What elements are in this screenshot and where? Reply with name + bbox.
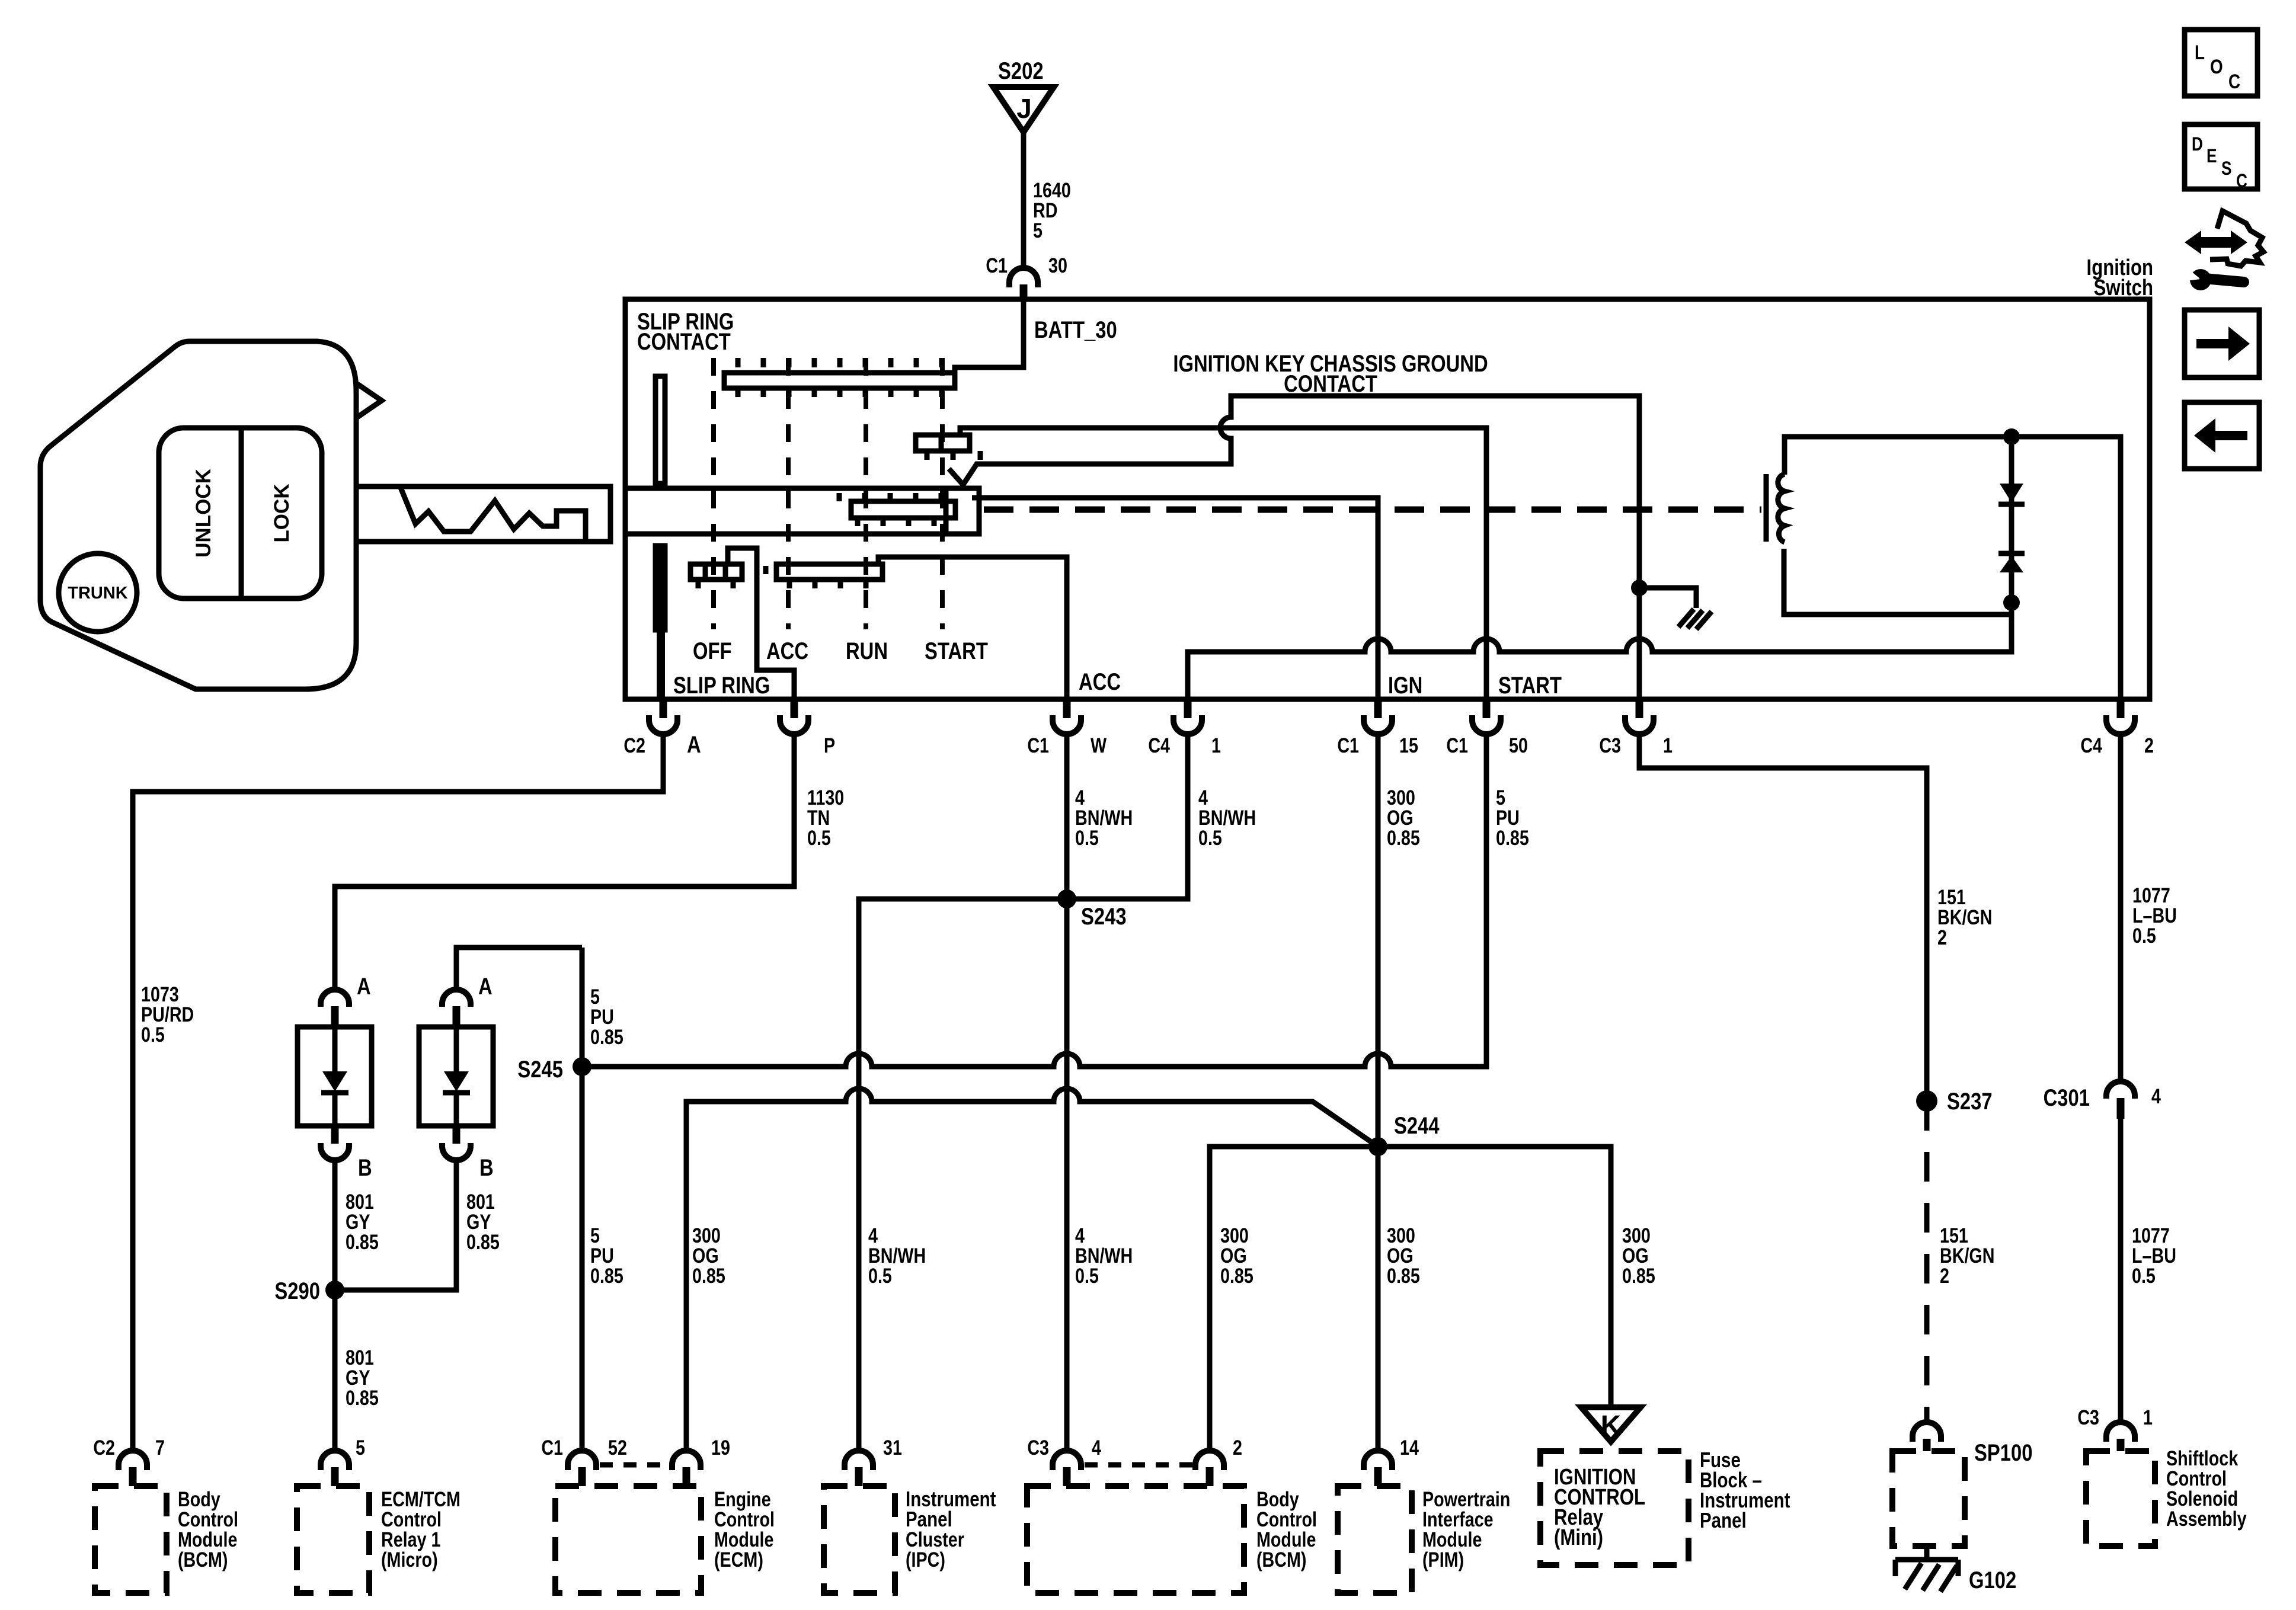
svg-text:C2: C2 xyxy=(93,1436,115,1459)
body control module BCM box 2 xyxy=(1027,1486,1317,1593)
internal ground splice on C3 1 wire xyxy=(1631,580,1712,629)
diode module 1 terminal A xyxy=(321,973,371,1027)
svg-text:0.85: 0.85 xyxy=(346,1386,379,1409)
dashed wire 151 BK/GN S237 to SP100 xyxy=(1927,1101,1994,1422)
svg-text:C: C xyxy=(2236,171,2247,192)
svg-text:S243: S243 xyxy=(1081,903,1127,930)
svg-text:0.5: 0.5 xyxy=(1075,826,1099,849)
svg-text:OFF: OFF xyxy=(693,638,732,664)
svg-text:Assembly: Assembly xyxy=(2166,1507,2247,1530)
svg-text:1: 1 xyxy=(1663,734,1673,757)
svg-text:C4: C4 xyxy=(1148,734,1170,757)
svg-text:0.85: 0.85 xyxy=(1496,826,1529,849)
icon repair double arrow with outline xyxy=(2185,211,2263,266)
label SLIP RING CONTACT xyxy=(637,308,734,355)
splice pack SP100 box xyxy=(1892,1439,2032,1546)
label fuse block instrument panel xyxy=(1700,1448,1790,1532)
svg-text:C: C xyxy=(2228,70,2240,92)
svg-text:S202: S202 xyxy=(998,57,1044,84)
svg-text:14: 14 xyxy=(1400,1436,1419,1459)
svg-text:C1: C1 xyxy=(1337,734,1359,757)
wire 300 OG S244 to BCM pin 2 xyxy=(1210,1147,1378,1451)
svg-text:D: D xyxy=(2192,135,2203,155)
wire 801 GY diode 1 B to S290 xyxy=(335,1160,379,1451)
key blade inside switch xyxy=(625,488,979,534)
wire 801 GY diode 2 B to S290 xyxy=(335,1160,500,1290)
svg-text:50: 50 xyxy=(1509,734,1528,757)
wire 5 PU S245 net xyxy=(582,734,1529,1451)
svg-text:S290: S290 xyxy=(274,1278,320,1304)
svg-text:C1: C1 xyxy=(1446,734,1468,757)
wire BATT_30 from C1 30 to battery contact bar xyxy=(955,300,1024,373)
label IGNITION KEY CHASSIS GROUND CONTACT xyxy=(1173,350,1488,397)
svg-text:S245: S245 xyxy=(517,1056,563,1083)
splice S237 xyxy=(1916,1088,1993,1115)
wire slip ring A output xyxy=(657,547,665,699)
terminal C3 1 at shiftlock xyxy=(2077,1406,2153,1451)
wire 300 OG S244 to ECM 19 xyxy=(686,1089,1378,1451)
svg-text:0.5: 0.5 xyxy=(807,826,831,849)
wire 4 BN/WH S243 to IPC 31 xyxy=(859,899,1067,1451)
body control module BCM box 1 xyxy=(95,1486,238,1593)
svg-text:4: 4 xyxy=(1092,1436,1101,1459)
terminal C3 4 at BCM xyxy=(1027,1436,1101,1486)
dashed position line OFF xyxy=(711,358,716,629)
engine control module ECM box xyxy=(555,1486,775,1593)
terminal C2 7 at BCM xyxy=(93,1436,165,1486)
key blade outside switch xyxy=(357,486,610,542)
svg-text:SLIP RING: SLIP RING xyxy=(673,672,770,699)
terminal C1 52 at ECM xyxy=(541,1436,627,1486)
svg-text:L: L xyxy=(2195,41,2205,63)
terminal 14 at PIM xyxy=(1364,1436,1419,1486)
solenoid coil core xyxy=(1764,474,1769,542)
svg-text:0.5: 0.5 xyxy=(868,1264,892,1287)
svg-text:CONTACT: CONTACT xyxy=(637,328,731,355)
icon DESC box xyxy=(2185,124,2257,192)
svg-text:0.85: 0.85 xyxy=(1387,826,1420,849)
svg-text:0.5: 0.5 xyxy=(1198,826,1222,849)
svg-text:1: 1 xyxy=(1211,734,1221,757)
terminal P xyxy=(780,699,835,757)
svg-text:C1: C1 xyxy=(1027,734,1049,757)
shiftlock control solenoid assembly box xyxy=(2086,1446,2247,1546)
svg-text:J: J xyxy=(1016,93,1032,124)
terminal C1 15 xyxy=(1337,699,1418,757)
wire 1130 TN from P to diode 1 xyxy=(335,734,844,990)
ACC contact bar xyxy=(766,564,882,588)
diode module 1 xyxy=(298,1027,372,1126)
diode module 2 terminal A xyxy=(442,973,493,1027)
svg-text:ACC: ACC xyxy=(766,638,808,664)
svg-text:W: W xyxy=(1091,734,1107,757)
dashed position line RUN xyxy=(864,358,868,629)
key blade cuts zigzag xyxy=(401,488,586,539)
svg-text:30: 30 xyxy=(1048,254,1067,277)
svg-text:A: A xyxy=(687,731,701,758)
powertrain interface module PIM box xyxy=(1338,1486,1510,1593)
battery contact bar BATT_30 xyxy=(724,373,955,397)
svg-text:S237: S237 xyxy=(1947,1088,1993,1115)
svg-text:(PIM): (PIM) xyxy=(1422,1548,1464,1571)
wire ACC contact to C1 W xyxy=(878,557,1067,699)
svg-text:A: A xyxy=(478,973,493,1000)
label Ignition Switch xyxy=(2087,255,2153,300)
svg-text:B: B xyxy=(358,1154,372,1181)
svg-text:5: 5 xyxy=(356,1436,365,1459)
svg-text:IGN: IGN xyxy=(1388,672,1422,699)
terminal C1 W xyxy=(1027,699,1107,757)
svg-text:O: O xyxy=(2210,55,2223,78)
key fob body xyxy=(40,341,356,689)
svg-text:15: 15 xyxy=(1399,734,1418,757)
wire IGN from key blade contact xyxy=(972,498,1378,699)
svg-text:4: 4 xyxy=(2151,1084,2161,1108)
svg-text:E: E xyxy=(2207,146,2217,167)
connector C301 pin 4 xyxy=(2044,1081,2161,1119)
svg-text:LOCK: LOCK xyxy=(270,484,293,542)
icon back arrow box xyxy=(2185,402,2259,469)
ignition switch box xyxy=(625,299,2150,699)
wire START contact C4 1 to solenoid xyxy=(1188,603,2012,699)
svg-text:Switch: Switch xyxy=(2094,276,2153,300)
svg-text:0.85: 0.85 xyxy=(692,1264,725,1287)
terminal 31 at IPC xyxy=(845,1436,902,1486)
icon LOC box xyxy=(2185,30,2257,96)
wire 300 OG S244 to ignition control relay K xyxy=(1378,1147,1655,1406)
svg-text:2: 2 xyxy=(1937,926,1947,949)
svg-text:C1: C1 xyxy=(541,1436,563,1459)
icon next arrow box xyxy=(2185,310,2259,377)
svg-text:S: S xyxy=(2221,159,2232,180)
svg-text:CONTACT: CONTACT xyxy=(1284,370,1377,397)
terminal at SP100 xyxy=(1913,1422,1941,1451)
svg-text:31: 31 xyxy=(883,1436,902,1459)
slip ring lower bar xyxy=(655,546,665,630)
diode module 2 xyxy=(419,1027,493,1126)
terminal C4 1 xyxy=(1148,699,1221,757)
svg-text:0.85: 0.85 xyxy=(346,1230,379,1253)
svg-text:1: 1 xyxy=(2143,1406,2153,1429)
wire solenoid coil bottom xyxy=(1784,549,2010,614)
splice S244 xyxy=(1368,1112,1440,1156)
terminal 2 at BCM xyxy=(1195,1436,1242,1486)
svg-text:2: 2 xyxy=(1940,1264,1949,1287)
terminal 5 at ECM/TCM relay xyxy=(321,1436,365,1486)
svg-text:START: START xyxy=(1498,672,1562,699)
svg-text:0.85: 0.85 xyxy=(1622,1264,1655,1287)
svg-text:0.5: 0.5 xyxy=(141,1023,165,1046)
svg-text:C301: C301 xyxy=(2044,1084,2090,1111)
svg-text:19: 19 xyxy=(711,1436,730,1459)
svg-text:(BCM): (BCM) xyxy=(178,1548,228,1571)
svg-text:C3: C3 xyxy=(1599,734,1621,757)
ignition key chassis ground contact xyxy=(916,435,980,460)
splice S245 xyxy=(517,1056,591,1083)
svg-text:(Mini): (Mini) xyxy=(1554,1525,1603,1550)
key ring nub xyxy=(357,384,382,417)
solenoid coil xyxy=(1778,474,1785,542)
svg-text:5: 5 xyxy=(1033,219,1043,242)
svg-text:C4: C4 xyxy=(2080,734,2102,757)
svg-text:(IPC): (IPC) xyxy=(906,1548,945,1571)
wire 1077 L-BU C301 to shiftlock xyxy=(2121,1119,2176,1422)
terminal C4 2 xyxy=(2080,699,2154,757)
svg-text:G102: G102 xyxy=(1969,1567,2016,1593)
svg-text:P: P xyxy=(824,734,835,757)
svg-text:TRUNK: TRUNK xyxy=(68,584,128,603)
wire solenoid coil top to C4 2 xyxy=(1785,437,2121,699)
solenoid diode branch xyxy=(1998,428,2025,611)
tick row above battery contact bar xyxy=(738,358,942,367)
dashed connector link across BCM pins xyxy=(1085,1462,1193,1468)
svg-text:ACC: ACC xyxy=(1079,668,1121,695)
wire P slip ring output xyxy=(728,548,794,699)
wire 151 BK/GN C3 1 to S237 xyxy=(1639,734,1992,1101)
svg-text:Panel: Panel xyxy=(1700,1508,1747,1532)
terminal C3 1 xyxy=(1599,699,1673,757)
svg-text:0.5: 0.5 xyxy=(1075,1264,1099,1287)
slip ring upper bar xyxy=(655,376,665,484)
svg-text:0.85: 0.85 xyxy=(466,1230,500,1253)
ignition control relay box xyxy=(1540,1451,1689,1565)
dashed connector link across ECM pins xyxy=(600,1462,670,1468)
wiper check-mark arrow and wire to C3 1 xyxy=(949,396,1639,699)
svg-text:(Micro): (Micro) xyxy=(381,1548,438,1571)
wire 5 PU diode 2 A branch xyxy=(456,948,623,1049)
diode module 2 terminal B xyxy=(442,1126,494,1181)
mechanical dashed link key blade to solenoid core xyxy=(984,507,1761,513)
wire 1077 L-BU C4 2 to C301 xyxy=(2121,734,2177,1081)
svg-text:C1: C1 xyxy=(986,254,1008,277)
wire 1073 PU/RD from C2 A to BCM C2 7 xyxy=(133,734,663,1451)
ground G102 xyxy=(1895,1546,2016,1593)
svg-text:C3: C3 xyxy=(2077,1406,2099,1429)
svg-text:SP100: SP100 xyxy=(1974,1439,2032,1466)
OFF slip contact xyxy=(690,564,742,588)
svg-text:2: 2 xyxy=(1233,1436,1242,1459)
splice S202 xyxy=(993,57,1054,132)
terminal 19 at ECM xyxy=(672,1436,730,1486)
svg-text:RUN: RUN xyxy=(846,638,888,664)
svg-text:0.5: 0.5 xyxy=(2132,924,2156,947)
svg-text:7: 7 xyxy=(155,1436,165,1459)
terminal C1 50 xyxy=(1446,699,1528,757)
svg-text:K: K xyxy=(1601,1410,1622,1442)
instrument panel cluster IPC box xyxy=(824,1486,996,1593)
wire 4 BN/WH C4 1 branch to S243 xyxy=(1067,734,1256,899)
wire 4 BN/WH C1 W to S243 to BCM C3 4 xyxy=(1067,734,1133,1451)
dashed position line ACC xyxy=(786,358,791,629)
wire 1640 RD 5 from S202 to ignition switch C1 30 xyxy=(1024,131,1071,268)
connector C1 pin 30 at ignition switch top xyxy=(986,254,1067,300)
svg-text:2: 2 xyxy=(2144,734,2154,757)
svg-text:B: B xyxy=(479,1154,494,1181)
svg-text:(BCM): (BCM) xyxy=(1256,1548,1306,1571)
svg-text:A: A xyxy=(357,973,371,1000)
key buttons panel xyxy=(159,428,322,598)
diode module 1 terminal B xyxy=(321,1126,372,1181)
icon wrench xyxy=(2186,268,2244,290)
splice K to fuse block xyxy=(1581,1407,1641,1442)
svg-text:0.85: 0.85 xyxy=(1220,1264,1253,1287)
wire chassis ground contact to C1 50 START xyxy=(960,428,1486,699)
svg-text:C2: C2 xyxy=(623,734,645,757)
svg-text:0.85: 0.85 xyxy=(590,1264,623,1287)
RUN/START contact bar on key blade xyxy=(839,493,955,526)
svg-text:0.5: 0.5 xyxy=(2132,1264,2156,1287)
TRUNK button xyxy=(59,553,137,632)
svg-text:(ECM): (ECM) xyxy=(714,1548,763,1571)
splice S243 xyxy=(1057,889,1127,930)
wire 801 GY S290 to relay pin 5 xyxy=(346,1346,379,1409)
dashed position line START xyxy=(940,358,945,629)
svg-text:0.85: 0.85 xyxy=(590,1025,623,1048)
wire 300 OG C1 15 to S244 to PIM 14 xyxy=(1378,734,1420,1451)
splice S290 xyxy=(274,1278,344,1304)
svg-text:0.85: 0.85 xyxy=(1387,1264,1420,1287)
svg-text:C3: C3 xyxy=(1027,1436,1049,1459)
svg-text:S244: S244 xyxy=(1394,1112,1440,1139)
svg-text:52: 52 xyxy=(608,1436,627,1459)
svg-text:START: START xyxy=(925,638,988,664)
svg-text:BATT_30: BATT_30 xyxy=(1034,316,1117,343)
terminal C2 A xyxy=(623,699,701,758)
svg-text:UNLOCK: UNLOCK xyxy=(192,469,215,558)
ECM/TCM control relay 1 box xyxy=(297,1486,461,1593)
